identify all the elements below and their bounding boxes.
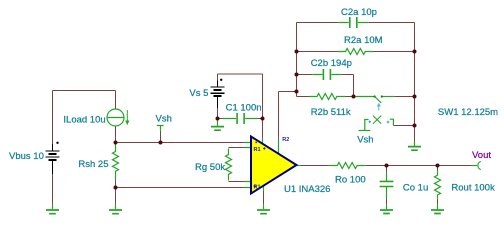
svg-text:C2b 194p: C2b 194p (311, 58, 352, 69)
svg-text:C1 100n: C1 100n (226, 102, 262, 113)
svg-text:Co 1u: Co 1u (403, 183, 428, 194)
svg-text:Vsh: Vsh (357, 134, 373, 145)
svg-text:R2: R2 (282, 137, 289, 143)
svg-text:R1: R1 (254, 147, 261, 153)
svg-text:R2b 511k: R2b 511k (311, 107, 351, 118)
svg-text:Vout: Vout (472, 150, 491, 161)
svg-text:Vsh: Vsh (156, 114, 172, 125)
svg-text:Rout 100k: Rout 100k (451, 183, 495, 194)
svg-text:R2a 10M: R2a 10M (344, 35, 383, 46)
svg-text:U1 INA326: U1 INA326 (284, 184, 330, 195)
svg-text:Vs 5: Vs 5 (189, 88, 208, 99)
svg-text:Vbus 10: Vbus 10 (9, 151, 44, 162)
svg-text:SW1 12.125m: SW1 12.125m (438, 107, 498, 118)
svg-text:R1: R1 (254, 184, 261, 190)
svg-text:ILoad 10u: ILoad 10u (63, 114, 105, 125)
svg-text:Ro 100: Ro 100 (335, 174, 366, 185)
svg-text:Rsh 25: Rsh 25 (78, 159, 108, 170)
svg-text:Rg 50k: Rg 50k (195, 162, 225, 173)
svg-text:C2a 10p: C2a 10p (341, 7, 377, 18)
